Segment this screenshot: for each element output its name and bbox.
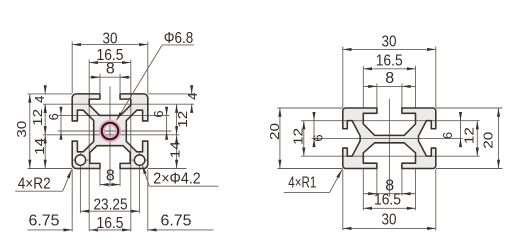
svg-text:23.25: 23.25 [94,196,128,213]
dimension 6 left side (right view) [313,112,315,120]
pink highlight ring on center hole [102,123,119,140]
svg-text:16.5: 16.5 [97,215,124,232]
dimension 16.5 top (right view) [363,68,415,70]
dimension 30 top (left view) [72,44,148,46]
right view: horizontal centerline [312,137,463,139]
left view: horizontal extension line y=168.5 bottom face (right) [148,168,187,170]
svg-text:6: 6 [311,134,326,141]
svg-text:4×R2: 4×R2 [18,176,51,193]
svg-text:8: 8 [106,168,115,185]
dimension 4 left side (left view) [44,85,46,94]
svg-text:6: 6 [46,113,61,120]
left view: horizontal extension line y=93.9 top face (left side) [28,93,73,95]
svg-text:8: 8 [385,70,394,87]
left view: horizontal extension line y=134.8 crossing body [43,134,180,136]
dimension 12 left side (left view) [44,104,46,135]
left view: vertical extension line x=120 (8 opening right, top) [119,74,121,94]
right view: vertical extension line x=363.4 (16.5 left, top) [362,66,364,108]
right view: horizontal extension line bottom face (left) [277,168,342,170]
left view: vertical extension line x=100 (8 opening left, top) [99,74,101,94]
svg-text:6.75: 6.75 [161,213,192,230]
dimension 14 left side (left view) [44,135,46,169]
svg-text:12: 12 [462,127,477,144]
right view: vertical extension line right edge (top) [435,47,437,108]
center hole phi6.8 [102,123,119,140]
mounting hole phi4.2 right [134,155,144,165]
left view: vertical extension line x=99.9 (8 bottom left) [99,164,101,187]
left view: horizontal center tick right hole [132,159,147,161]
mounting hole phi4.2 left [75,155,85,165]
svg-text:20: 20 [481,132,496,149]
svg-text:30: 30 [382,33,397,50]
svg-text:16.5: 16.5 [374,192,401,209]
dimension 12 right side (left view) [176,104,178,135]
dimension 30 left side (left view) [29,94,31,169]
left view: vertical extension line x=89.2 (16.5 cavity left), crossing body [88,60,90,232]
left view: vertical extension line, profile left edge (top) [71,42,73,94]
left view: vertical extension line profile right edge (bottom) [147,169,149,231]
profile body right view (30x20) fill [343,108,436,169]
dimension 16.5 top (left view) [89,62,131,64]
dimension 12 right side (right view) [476,121,478,156]
right view: horizontal extension line top face (left) [277,107,342,109]
left view: vertical extension line, profile right edge (top) [147,42,149,94]
svg-text:Φ6.8: Φ6.8 [164,30,194,47]
dimension 16.5 bottom (right view) [363,207,415,209]
right view: vertical extension line x=377 (8 left, bottom) [376,169,378,196]
svg-text:8: 8 [106,61,115,78]
right view: vertical extension line right edge (bottom) [435,169,437,230]
left view: horizontal extension line y=104.2 crossing body [43,103,194,105]
dimension 8 bottom (left view) [100,184,120,186]
left view: vertical centerline [109,87,111,188]
svg-text:4: 4 [32,96,47,103]
svg-text:4: 4 [185,93,200,100]
dimension 14 right side (left view) [176,135,178,169]
right view: vertical extension line left edge (bottom) [342,169,344,230]
right view: vertical extension line x=402 (8 right, top) [401,83,403,107]
left view: horizontal center tick left hole [73,159,88,161]
svg-text:30: 30 [382,211,397,228]
left view: horizontal extension line y=168.5 bottom face (left) [28,168,73,170]
right view: vertical centerline [388,99,390,197]
svg-text:30: 30 [103,30,118,47]
dimension 12 left side (right view) [303,121,305,156]
right view: vertical extension line x=377 (8 left, top) [376,83,378,107]
left view: vertical extension line x=120.1 (8 bottom right) [119,164,121,187]
svg-text:6.75: 6.75 [29,213,60,230]
left view: vertical extension line right hole center [139,153,141,214]
profile outline right view [343,108,436,169]
right view: vertical extension line x=415.6 (16.5 right, top) [415,66,417,108]
left view: horizontal centerline [58,130,172,132]
dimension 30 top (right view) [343,48,436,50]
profile body left view (30x30) fill [72,94,148,169]
dimension 8 top (right view) [363,85,415,87]
svg-text:6: 6 [440,132,455,139]
right view: horizontal extension line bottom face (right) [436,168,503,170]
dimension 8 top (left view) [89,76,131,78]
svg-text:2×Φ4.2: 2×Φ4.2 [153,171,201,188]
svg-text:14: 14 [168,141,183,158]
dimension 4 right side (left view) [191,85,193,94]
svg-text:12: 12 [291,128,306,145]
left view: vertical extension line left hole center [79,153,81,214]
dimension 6 right side (left view) [166,107,168,116]
right view: vertical extension line x=402 (8 right, bottom) [401,169,403,196]
dimension 6 left side (left view) [60,107,62,116]
svg-text:4×R1: 4×R1 [288,175,316,192]
svg-text:12: 12 [30,109,45,126]
profile outline left view [72,94,148,169]
svg-text:12: 12 [175,111,190,128]
right view: vertical extension line x=363.4 (16.5 left, bottom) [362,169,364,210]
right view: horizontal extension line y=155.95 crossing body [301,155,480,157]
left view: vertical extension line profile left edge (bottom) [71,169,73,231]
svg-text:14: 14 [32,138,47,155]
svg-text:16.5: 16.5 [376,53,403,70]
dimension 20 left side (right view) [279,108,281,169]
svg-text:6: 6 [151,110,166,117]
dimension 23.25 bottom (left view) [80,210,139,212]
bottom dimension line 6.75 / 16.5 / 6.75 (left view) [28,229,64,231]
right view: horizontal extension line top face (right) [436,107,503,109]
left view: horizontal extension line y=115.4 crossing body [58,114,170,116]
left view: horizontal extension line y=93.9 top face (right side) [148,93,194,95]
dimension 8 bottom (right view) [363,193,415,195]
dimension 30 bottom (right view) [343,227,436,229]
dimension 20 right side (right view) [498,108,500,169]
left view: vertical extension line x=130.8 (16.5 cavity right), crossing body [130,60,132,232]
svg-text:30: 30 [14,121,29,138]
right view: vertical extension line x=415.6 (16.5 right, bottom) [415,169,417,210]
dimension 6 right side (right view) [460,112,462,120]
svg-text:20: 20 [267,123,282,140]
right view: vertical extension line left edge (top) [342,47,344,108]
right view: horizontal extension line y=120.65 crossing body [301,120,480,122]
